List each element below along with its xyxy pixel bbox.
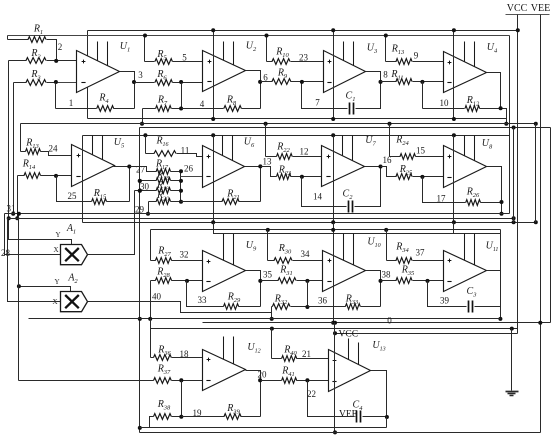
wire row D top rail xyxy=(151,329,518,334)
resistor R24 xyxy=(390,156,401,158)
junction node 16 xyxy=(379,165,383,169)
junction R18 bus tap xyxy=(138,179,142,183)
junction U5 - node xyxy=(54,174,58,178)
junction R14 bus xyxy=(15,216,19,220)
svg-text:36: 36 xyxy=(318,296,328,306)
wire node27 to R17 xyxy=(130,167,157,172)
wire left bus feeding R3 xyxy=(13,83,15,214)
wire R20 tap to rail xyxy=(148,202,150,214)
resistor R13 xyxy=(386,61,397,63)
wire H4 corner to R13b xyxy=(20,124,22,152)
junction U2 fb join xyxy=(179,107,183,111)
junction U4 - node xyxy=(420,80,424,84)
junction node 35 xyxy=(258,279,262,283)
wire U2 - riser xyxy=(181,83,183,109)
wire right loop riser2 xyxy=(513,128,515,223)
svg-text:40: 40 xyxy=(152,292,162,302)
wire U9 - riser node 33 xyxy=(187,281,224,307)
wire U12 - riser xyxy=(181,381,183,417)
svg-text:15: 15 xyxy=(416,146,426,156)
junction U2 - node xyxy=(179,80,183,84)
junction U10 drop on row C rail xyxy=(331,228,335,232)
svg-text:31: 31 xyxy=(7,204,16,214)
junction H5 right xyxy=(512,126,516,130)
resistor R35 xyxy=(381,280,397,282)
wire U3 - riser node 7 xyxy=(302,82,348,109)
svg-text:20: 20 xyxy=(258,370,268,380)
wire rail w out xyxy=(29,318,501,320)
wire A2 output xyxy=(88,302,272,313)
junction U8 out on rail xyxy=(500,212,504,216)
junction U7 - node xyxy=(300,175,304,179)
wire U4 output riser xyxy=(487,73,501,109)
wire rail tap for R10 xyxy=(266,36,268,62)
wire C3 right to output xyxy=(475,271,501,307)
resistor R14 xyxy=(18,175,25,177)
junction left bus top xyxy=(17,212,21,216)
op-amp U7 xyxy=(322,146,365,187)
resistor R3 xyxy=(14,82,27,84)
op-amp U10 xyxy=(323,251,366,292)
capacitor C1 xyxy=(349,103,351,115)
junction U13 drop bottom xyxy=(333,430,337,434)
wire row B top rail xyxy=(83,135,510,137)
junction row B rail U8 drop xyxy=(452,133,456,137)
resistor R13 rowB xyxy=(21,151,26,153)
capacitor C2 xyxy=(348,201,350,213)
svg-text:11: 11 xyxy=(181,146,190,156)
wire R22 drop xyxy=(265,124,267,157)
svg-text:VCC: VCC xyxy=(507,3,528,14)
svg-text:10: 10 xyxy=(440,98,450,108)
wire U13 - riser xyxy=(308,381,355,417)
wire U5 - riser node 25 xyxy=(57,176,92,202)
resistor R38 xyxy=(154,414,172,420)
wire rail H5 xyxy=(140,127,551,129)
wire bottom rail xyxy=(140,432,541,434)
junction U3 - node xyxy=(300,80,304,84)
wire U8 output riser xyxy=(487,167,502,214)
junction drop U8 bottom xyxy=(452,220,456,224)
resistor R22 xyxy=(266,156,277,158)
wire VCC bus xyxy=(517,15,519,334)
junction stack row3 xyxy=(179,189,183,193)
junction R36 source xyxy=(148,317,152,321)
wire U5 supply drop xyxy=(82,136,84,223)
svg-text:37: 37 xyxy=(416,248,426,258)
resistor R26 xyxy=(466,200,481,206)
junction R7 rail tap xyxy=(140,122,144,126)
wire R27 riser xyxy=(150,230,152,261)
wire R36 riser xyxy=(150,319,152,358)
op-amp U9 xyxy=(203,251,246,292)
junction node 6 xyxy=(258,80,262,84)
junction drop U6 bottom xyxy=(211,220,215,224)
svg-text:13: 13 xyxy=(263,157,273,167)
svg-text:14: 14 xyxy=(313,192,323,202)
resistor R37 xyxy=(19,380,154,382)
resistor R18 xyxy=(140,180,157,182)
svg-text:25: 25 xyxy=(68,191,78,201)
op-amp U12 xyxy=(203,350,246,391)
junction left column bus on rail w xyxy=(138,317,142,321)
junction node 13 xyxy=(258,164,262,168)
junction node 38 xyxy=(379,279,383,283)
svg-text:32: 32 xyxy=(180,250,189,260)
junction row B rail U7 drop xyxy=(331,133,335,137)
junction A1 out bus tap1 xyxy=(138,179,142,183)
resistor R9 xyxy=(261,81,273,83)
resistor R5 xyxy=(145,61,155,63)
junction H4 R24 tap xyxy=(388,122,392,126)
wire U4 supply drop xyxy=(453,31,455,119)
op-amp U1 xyxy=(77,51,120,93)
junction U2 drop top xyxy=(211,28,215,32)
junction node 8 xyxy=(379,80,383,84)
wire stack bus node 26 xyxy=(180,172,182,202)
junction stack row2 xyxy=(179,179,183,183)
resistor R25 xyxy=(381,167,397,177)
junction A2 Y tap xyxy=(17,284,21,288)
svg-text:4: 4 xyxy=(200,99,205,109)
wire U1 supply drop xyxy=(87,31,89,119)
resistor R30 xyxy=(268,260,275,262)
power header underline xyxy=(506,14,550,16)
wire U6 fb line xyxy=(181,201,223,203)
svg-text:Y: Y xyxy=(55,231,60,239)
junction ground rail VEE xyxy=(538,321,542,325)
svg-text:9: 9 xyxy=(414,51,419,61)
wire right loop riser3 xyxy=(535,124,537,223)
op-amp U5 xyxy=(72,145,115,187)
wire U8 - riser node 17 xyxy=(423,177,466,203)
wire C4 right to output xyxy=(363,371,387,417)
svg-text:12: 12 xyxy=(300,147,309,157)
wire R32 riser xyxy=(271,307,273,319)
svg-text:2: 2 xyxy=(58,42,63,52)
wire A1 output xyxy=(88,191,135,255)
wire C2 right to output xyxy=(355,167,381,207)
resistor R6 xyxy=(135,82,155,84)
svg-text:5: 5 xyxy=(182,53,187,63)
wire row C top rail xyxy=(151,229,501,231)
junction A1 out bus tap2 xyxy=(138,189,142,193)
wire U10 supply drop xyxy=(333,223,335,323)
svg-text:21: 21 xyxy=(302,349,311,359)
svg-text:19: 19 xyxy=(193,408,203,418)
junction U12 - node xyxy=(179,378,183,382)
wire U7 - riser node 14 xyxy=(302,177,347,207)
wire C1 right to output xyxy=(356,72,381,109)
junction drop U7 bottom xyxy=(331,220,335,224)
multiplier A2 xyxy=(61,292,88,312)
op-amp U3 xyxy=(324,51,366,93)
wire rail row B bottom xyxy=(83,222,536,224)
svg-text:Y: Y xyxy=(54,278,59,286)
svg-text:VCC: VCC xyxy=(339,330,359,340)
resistor R23 xyxy=(261,167,277,177)
junction R32 riser on rail xyxy=(270,317,274,321)
resistor R1 xyxy=(8,39,29,41)
op-amp U8 xyxy=(444,146,487,188)
wire rail feedback x2 xyxy=(5,213,510,215)
junction node 27 xyxy=(127,165,131,169)
junction U12 fb join xyxy=(179,415,183,419)
svg-text:35: 35 xyxy=(263,270,273,280)
wire ground rail 0 xyxy=(203,322,551,324)
wire rail tap for R5 xyxy=(144,36,146,62)
op-amp U13 xyxy=(329,350,371,392)
junction VCC drop on rail xyxy=(333,331,337,335)
junction U3 drop top xyxy=(331,28,335,32)
junction U4 drop top xyxy=(452,28,456,32)
svg-text:X: X xyxy=(53,246,58,254)
wire U13 supply drop VCC-VEE xyxy=(334,323,336,433)
junction R19 bus tap xyxy=(138,189,142,193)
wire bottom loop rail xyxy=(140,427,387,429)
wire U2 output riser xyxy=(246,71,261,109)
resistor R17 xyxy=(156,169,170,175)
resistor R39 xyxy=(182,416,225,418)
junction U10 - node xyxy=(305,279,309,283)
wire row C box right edge xyxy=(500,230,502,271)
resistor R27 xyxy=(151,260,156,262)
junction U10 drop bottom xyxy=(331,321,335,325)
wire U9 supply drop xyxy=(214,223,501,234)
wire U13 out down xyxy=(386,417,388,428)
resistor R12 xyxy=(423,108,465,110)
resistor R40 xyxy=(272,358,282,360)
wire U11 out down to rail xyxy=(500,307,502,319)
svg-text:7: 7 xyxy=(315,98,320,108)
wire rail tap for R13 xyxy=(385,36,387,62)
resistor R19 xyxy=(135,190,157,192)
svg-text:VEE: VEE xyxy=(339,410,358,420)
wire R30 riser xyxy=(267,230,269,261)
wire VEE bus xyxy=(540,15,542,433)
wire left column bus xyxy=(139,128,141,433)
junction U9 - node xyxy=(185,279,189,283)
wire input rail x xyxy=(8,35,510,37)
junction rail right3 xyxy=(534,220,538,224)
op-amp U11 xyxy=(444,251,487,292)
wire U7 supply drop xyxy=(333,136,335,223)
junction row B rail R16 tap xyxy=(143,133,147,137)
wire node 40 riser xyxy=(150,281,152,319)
wire U6 - input xyxy=(181,176,203,178)
resistor R21 xyxy=(222,199,239,205)
junction stack row4 xyxy=(179,200,183,204)
wire left bus w feeding R2 and A1 Y xyxy=(9,61,72,245)
junction U4 drop bottom xyxy=(452,117,456,121)
junction U13 - node xyxy=(305,378,309,382)
svg-text:24: 24 xyxy=(49,144,59,154)
op-amp U2 xyxy=(203,51,246,92)
wire VCC rail row A xyxy=(88,30,518,32)
svg-text:33: 33 xyxy=(198,295,208,305)
svg-text:38: 38 xyxy=(382,270,392,280)
wire U4 - riser node 10 xyxy=(422,82,424,109)
wire U5 output riser xyxy=(114,167,130,202)
svg-text:39: 39 xyxy=(440,296,450,306)
ground xyxy=(511,329,513,391)
junction H4 R22 tap xyxy=(264,122,268,126)
wire VCC rail row D xyxy=(335,333,518,335)
svg-text:34: 34 xyxy=(301,249,311,259)
junction left column bus bottom xyxy=(138,426,142,430)
wire outer loop right xyxy=(550,128,552,323)
wire U4 out stub xyxy=(501,109,507,124)
resistor R10 xyxy=(267,61,273,63)
wire R24 drop xyxy=(389,124,391,157)
junction rail right2 xyxy=(512,220,516,224)
wire rail feedback y2 xyxy=(8,218,514,220)
wire A1 X input node 28 xyxy=(5,214,61,255)
junction U8 - node xyxy=(420,175,424,179)
resistor R4 xyxy=(56,108,97,110)
resistor R34 xyxy=(387,260,397,262)
junction row C rail R30 tap xyxy=(266,228,270,232)
svg-text:23: 23 xyxy=(299,53,309,63)
junction ground stem xyxy=(510,327,514,331)
resistor R41 xyxy=(261,380,282,382)
junction R3 bus on rail xyxy=(11,212,15,216)
svg-text:0: 0 xyxy=(387,316,392,326)
junction R10 tap xyxy=(265,34,269,38)
junction U4 out to rail xyxy=(504,122,508,126)
wire U10 - riser node 36 xyxy=(307,281,309,307)
capacitor C3 xyxy=(468,301,470,313)
svg-text:22: 22 xyxy=(307,389,316,399)
svg-text:1: 1 xyxy=(69,98,74,108)
junction U13 out xyxy=(385,415,389,419)
junction U10 fb join xyxy=(305,305,309,309)
wire A2 Y input xyxy=(19,287,71,292)
svg-text:18: 18 xyxy=(180,349,190,359)
svg-text:17: 17 xyxy=(437,194,447,204)
junction U8 fb xyxy=(500,200,504,204)
resistor R16 xyxy=(146,153,155,155)
svg-text:8: 8 xyxy=(383,70,388,80)
junction U2 drop bottom xyxy=(211,117,215,121)
resistor R7 xyxy=(143,108,156,110)
junction row B rail U6 drop xyxy=(211,133,215,137)
resistor R8 xyxy=(182,108,224,110)
wire U11 - riser node 39 xyxy=(428,281,467,307)
junction R5 tap xyxy=(143,34,147,38)
junction VCC drop top xyxy=(333,321,337,325)
wire U1 output riser xyxy=(120,72,135,109)
junction U3 drop bottom xyxy=(331,117,335,121)
multiplier A1 xyxy=(61,245,88,265)
op-amp U6 xyxy=(203,146,245,188)
wire rail H4 xyxy=(21,123,536,125)
wire R38 left loop xyxy=(140,417,154,428)
wire U12 output riser xyxy=(246,371,261,417)
wire R34 riser xyxy=(386,230,388,261)
resistor R15 xyxy=(92,199,107,205)
svg-text:28: 28 xyxy=(1,248,11,258)
junction R40 tap xyxy=(270,327,274,331)
junction H4 right bus xyxy=(534,122,538,126)
wire U10 output riser xyxy=(366,271,381,307)
junction left bus w on rail xyxy=(7,216,11,220)
junction row C rail R34 tap xyxy=(384,228,388,232)
svg-text:X: X xyxy=(52,298,57,306)
junction R20 rail tap xyxy=(146,212,150,216)
wire U6 output riser xyxy=(245,167,261,202)
resistor R28 xyxy=(151,280,156,282)
resistor R32 xyxy=(272,306,273,308)
wire left bus to U12 xyxy=(18,214,20,381)
junction R13 tap xyxy=(384,34,388,38)
resistor R36 xyxy=(151,357,154,359)
wire U1 feedback left riser node 1 xyxy=(55,83,57,109)
svg-text:3: 3 xyxy=(138,70,143,80)
capacitor C4 xyxy=(356,411,358,423)
wire U2 supply drop xyxy=(213,31,215,119)
wire right loop riser1 xyxy=(509,36,511,214)
junction U11 - node xyxy=(426,279,430,283)
junction U11 out on rail xyxy=(498,317,502,321)
svg-text:26: 26 xyxy=(184,164,194,174)
svg-text:VEE: VEE xyxy=(531,3,550,14)
wire R14 bus xyxy=(17,176,19,219)
wire U9 output riser xyxy=(246,271,261,307)
junction node 2 on + line xyxy=(54,59,58,63)
wire U8 supply drop xyxy=(453,136,455,223)
wire A2 X input xyxy=(8,219,61,302)
resistor R33 xyxy=(308,306,346,308)
wire R16 riser xyxy=(145,136,147,154)
junction stack row1 xyxy=(179,169,183,173)
wire R40 riser xyxy=(271,329,273,359)
op-amp U4 xyxy=(444,52,487,93)
wire U6 supply drop xyxy=(213,136,215,223)
resistor R31 xyxy=(261,280,279,282)
wire U11 supply drop xyxy=(453,223,455,234)
wire R7 tap to rail xyxy=(142,109,144,124)
junction VCC rail to VCC bus xyxy=(516,28,520,32)
resistor R20 xyxy=(149,201,157,203)
junction node 3 xyxy=(132,80,136,84)
wire U3 supply drop xyxy=(333,31,335,119)
junction node 20 xyxy=(258,378,262,382)
wire row A bottom rail xyxy=(88,118,507,120)
wire U1 - input xyxy=(56,82,77,84)
junction U1 - node xyxy=(54,80,58,84)
junction U4 fb xyxy=(499,106,503,110)
junction rail right1 xyxy=(512,216,516,220)
resistor R29 xyxy=(224,304,239,310)
resistor R2 xyxy=(9,60,27,62)
wire input stub xyxy=(7,36,9,40)
resistor R11 xyxy=(381,81,397,83)
